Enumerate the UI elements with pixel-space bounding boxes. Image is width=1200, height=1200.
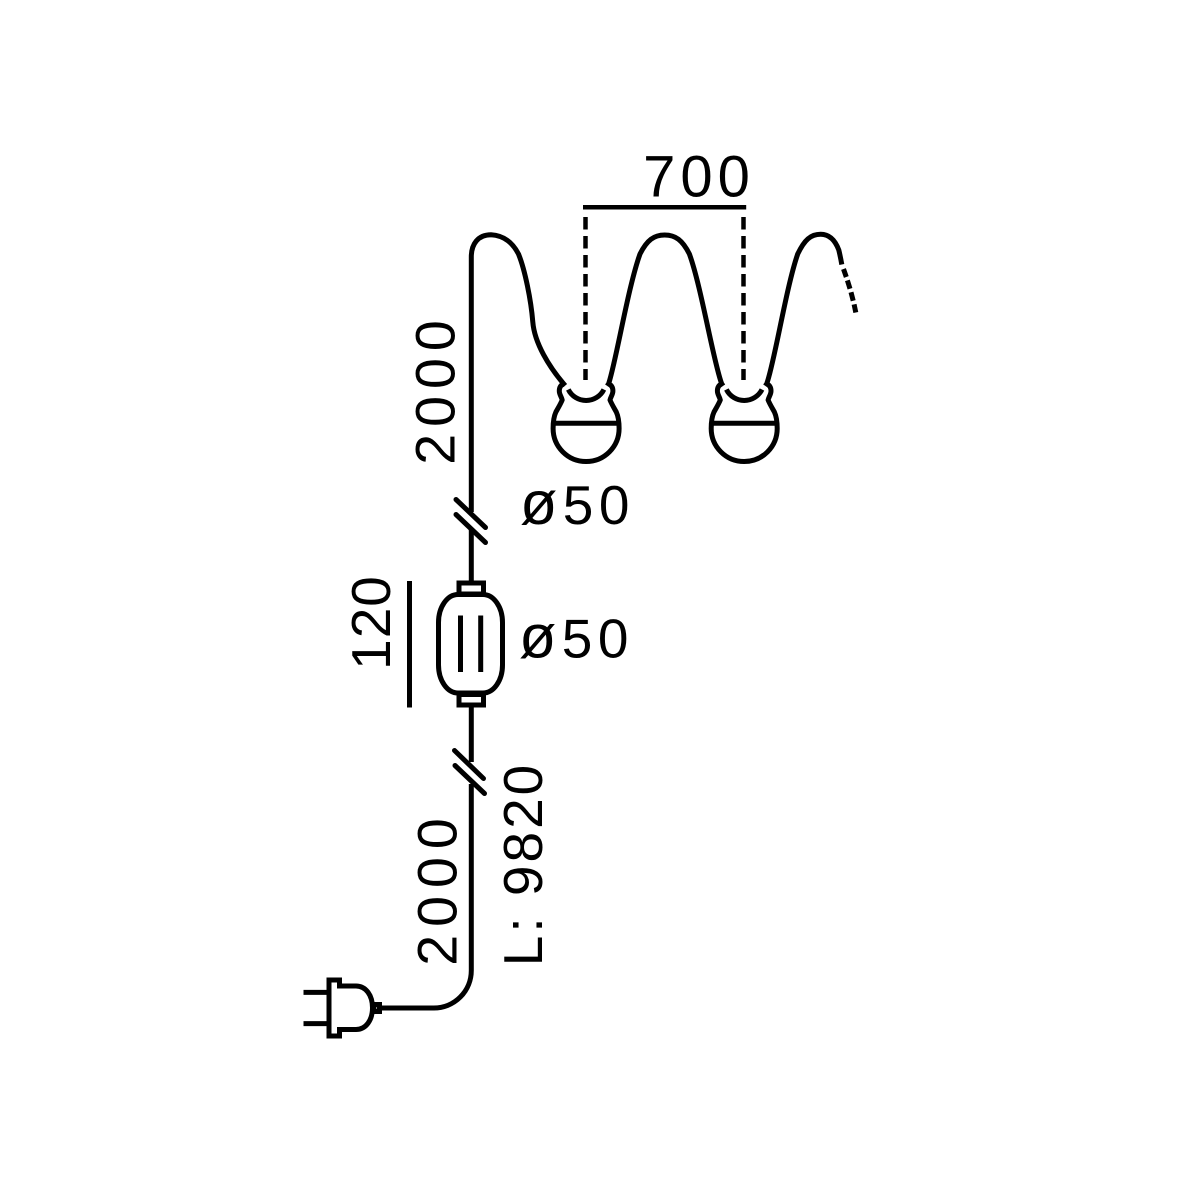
svg-text:ø50: ø50: [520, 469, 635, 537]
dim line 700: [583, 205, 746, 210]
plug prong lower: [304, 1021, 328, 1026]
wire festoon bulb1 to bulb2: [607, 235, 723, 386]
bulb B2 cradle: [726, 390, 762, 401]
svg-text:L: 9820: L: 9820: [492, 762, 554, 967]
cable break upper slash 1: [456, 500, 486, 528]
wire riser and first festoon: [471, 235, 565, 512]
wire plug to lower break: [381, 784, 471, 1008]
wire dashed continuation tail: [844, 269, 856, 313]
bulb B2 equator: [712, 421, 777, 426]
svg-text:120: 120: [340, 575, 402, 670]
svg-text:2000: 2000: [405, 313, 467, 464]
cable break upper slash 2: [456, 515, 486, 543]
cable break lower slash 1: [455, 751, 484, 779]
dim dashed line left: [583, 217, 588, 380]
switch slot right: [478, 616, 483, 673]
switch slot left: [458, 616, 463, 673]
bulb B2 outline: [711, 384, 777, 462]
wire lower break to switch: [469, 707, 474, 762]
wire festoon bulb2 to peak3: [765, 234, 842, 386]
wire switch to upper break: [469, 530, 474, 581]
plug body: [329, 980, 373, 1036]
bulb B1 outline: [553, 384, 619, 462]
plug prong upper: [304, 990, 328, 995]
dim dashed line right: [741, 217, 746, 380]
bulb B1 cradle: [568, 390, 604, 401]
bulb B1 equator: [554, 421, 619, 426]
switch top tab: [459, 583, 484, 594]
dim line 120: [407, 581, 412, 708]
switch body: [439, 595, 503, 694]
plug cable nub: [374, 1005, 380, 1012]
svg-text:ø50: ø50: [519, 603, 634, 671]
cable break lower slash 2: [455, 766, 485, 794]
svg-text:700: 700: [643, 145, 755, 210]
svg-text:2000: 2000: [407, 810, 469, 965]
switch bottom tab: [459, 695, 484, 706]
